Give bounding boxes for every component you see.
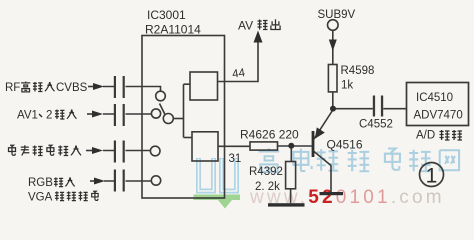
watermark logo blue bracket 1: [199, 158, 214, 191]
internal bus wire: [183, 84, 185, 137]
resistor R4598 body: [328, 65, 337, 92]
transistor Q4516 base bar: [312, 131, 315, 157]
node junction N1 (base node): [288, 143, 294, 149]
label VGA模拟信号: [28, 191, 98, 203]
watermark logo green triangle: [218, 200, 232, 209]
capacitor input 1 plates: [114, 76, 125, 98]
wire bus to block1: [184, 83, 191, 85]
svg-text:1k: 1k: [341, 79, 353, 91]
svg-text:CVBS: CVBS: [56, 82, 88, 94]
watermark char 网: [440, 150, 459, 170]
svg-text:IC3001: IC3001: [147, 8, 186, 22]
SUB9V down arrowhead: [329, 40, 337, 52]
capacitor input 4 plates: [114, 170, 125, 192]
svg-text:AV1: AV1: [17, 110, 38, 122]
wire input4 to switch contact: [104, 180, 151, 182]
wire R4598 to node: [332, 92, 334, 109]
label 色差信号输入: [9, 145, 82, 155]
transistor Q4516 emitter wire: [314, 110, 333, 139]
ground bar (Q4516 collector): [320, 192, 344, 195]
wire input2 to switch contact: [103, 113, 151, 115]
wire pin31 to R4626: [218, 145, 250, 147]
watermark char 家: [259, 148, 280, 172]
svg-text:44: 44: [232, 67, 247, 81]
wire R4392 to ground: [290, 189, 292, 203]
op block 1 (pin 44 driver): [190, 72, 218, 100]
watermark char 维: [317, 149, 339, 171]
input arrow 2: [87, 111, 103, 118]
wire C4552 to IC4510: [383, 108, 406, 110]
svg-text:IC4510: IC4510: [416, 92, 453, 104]
svg-text:SUB9V: SUB9V: [318, 9, 356, 21]
node junction N2 (collector node): [330, 106, 336, 112]
wire bus to block2: [184, 137, 193, 139]
wire input3 to switch contact: [103, 150, 150, 152]
switch contact circle 2 (AV): [151, 109, 160, 118]
SUB9V feed wire: [332, 30, 334, 64]
switch pole wire to bus: [173, 118, 183, 120]
resistor R4392 body: [286, 162, 296, 189]
IC4510 box: [407, 83, 469, 126]
wire input1 to switch contact: [103, 87, 161, 92]
resistor R4626 body: [250, 142, 278, 150]
svg-text:A/D: A/D: [416, 130, 435, 142]
circled number 1: [420, 163, 444, 187]
AV output arrowhead: [254, 31, 263, 43]
svg-text:Q4516: Q4516: [327, 138, 363, 152]
capacitor input 2 plates: [114, 104, 125, 126]
watermark char 料: [409, 150, 431, 172]
svg-text:ADV7470: ADV7470: [414, 110, 463, 122]
svg-text:R4626 220: R4626 220: [240, 128, 299, 142]
label AV1、2输入: [17, 109, 76, 121]
svg-text:1: 1: [426, 165, 438, 188]
wire node to C4552: [333, 108, 373, 110]
label RGB输入: [28, 177, 75, 189]
svg-text:2: 2: [46, 110, 52, 122]
wire pin44 to AV output: [218, 43, 259, 82]
transistor Q4516 emitter arrowhead: [315, 127, 325, 138]
wire node to R4392: [290, 146, 292, 162]
svg-text:R4392: R4392: [249, 166, 283, 178]
capacitor C4552 plates: [373, 96, 383, 117]
svg-text:31: 31: [229, 153, 242, 165]
label AV输出: [238, 19, 280, 33]
svg-text:R4598: R4598: [341, 65, 375, 77]
IC3001 box: [142, 36, 225, 199]
svg-text:VGA: VGA: [28, 192, 53, 204]
switch contact circle 3 (YUV): [150, 146, 160, 156]
capacitor input 3 plates: [114, 141, 125, 163]
label RF高频头CVBS: [5, 81, 88, 94]
watermark logo green bar: [194, 195, 241, 201]
watermark logo blue bracket 2: [222, 158, 237, 191]
ground bar (R4392): [268, 203, 305, 206]
svg-text:RF: RF: [5, 82, 20, 94]
svg-text:2. 2k: 2. 2k: [255, 181, 280, 193]
svg-text:AV: AV: [238, 19, 253, 33]
switch arm: [160, 104, 166, 115]
svg-text:R2A11014: R2A11014: [145, 23, 201, 37]
switch contact circle 1 (RF): [156, 91, 166, 101]
svg-text:RGB: RGB: [28, 177, 53, 189]
wire R4626 to Q4516 base: [278, 145, 312, 147]
input arrow 1: [88, 83, 104, 90]
switch pole circle: [163, 114, 173, 124]
input arrow 4: [90, 178, 105, 185]
watermark char 电: [293, 149, 311, 171]
transistor Q4516 collector wire: [314, 152, 331, 193]
switch contact circle 4 (RGB): [151, 176, 160, 185]
svg-text:C4552: C4552: [359, 119, 393, 131]
SUB9V terminal circle: [328, 20, 339, 31]
watermark char 资: [385, 149, 400, 170]
input arrow 3: [86, 147, 103, 154]
watermark char 修: [348, 150, 370, 172]
label A/D转换: [416, 130, 462, 142]
op block 2 (pin 31 driver): [192, 132, 218, 161]
